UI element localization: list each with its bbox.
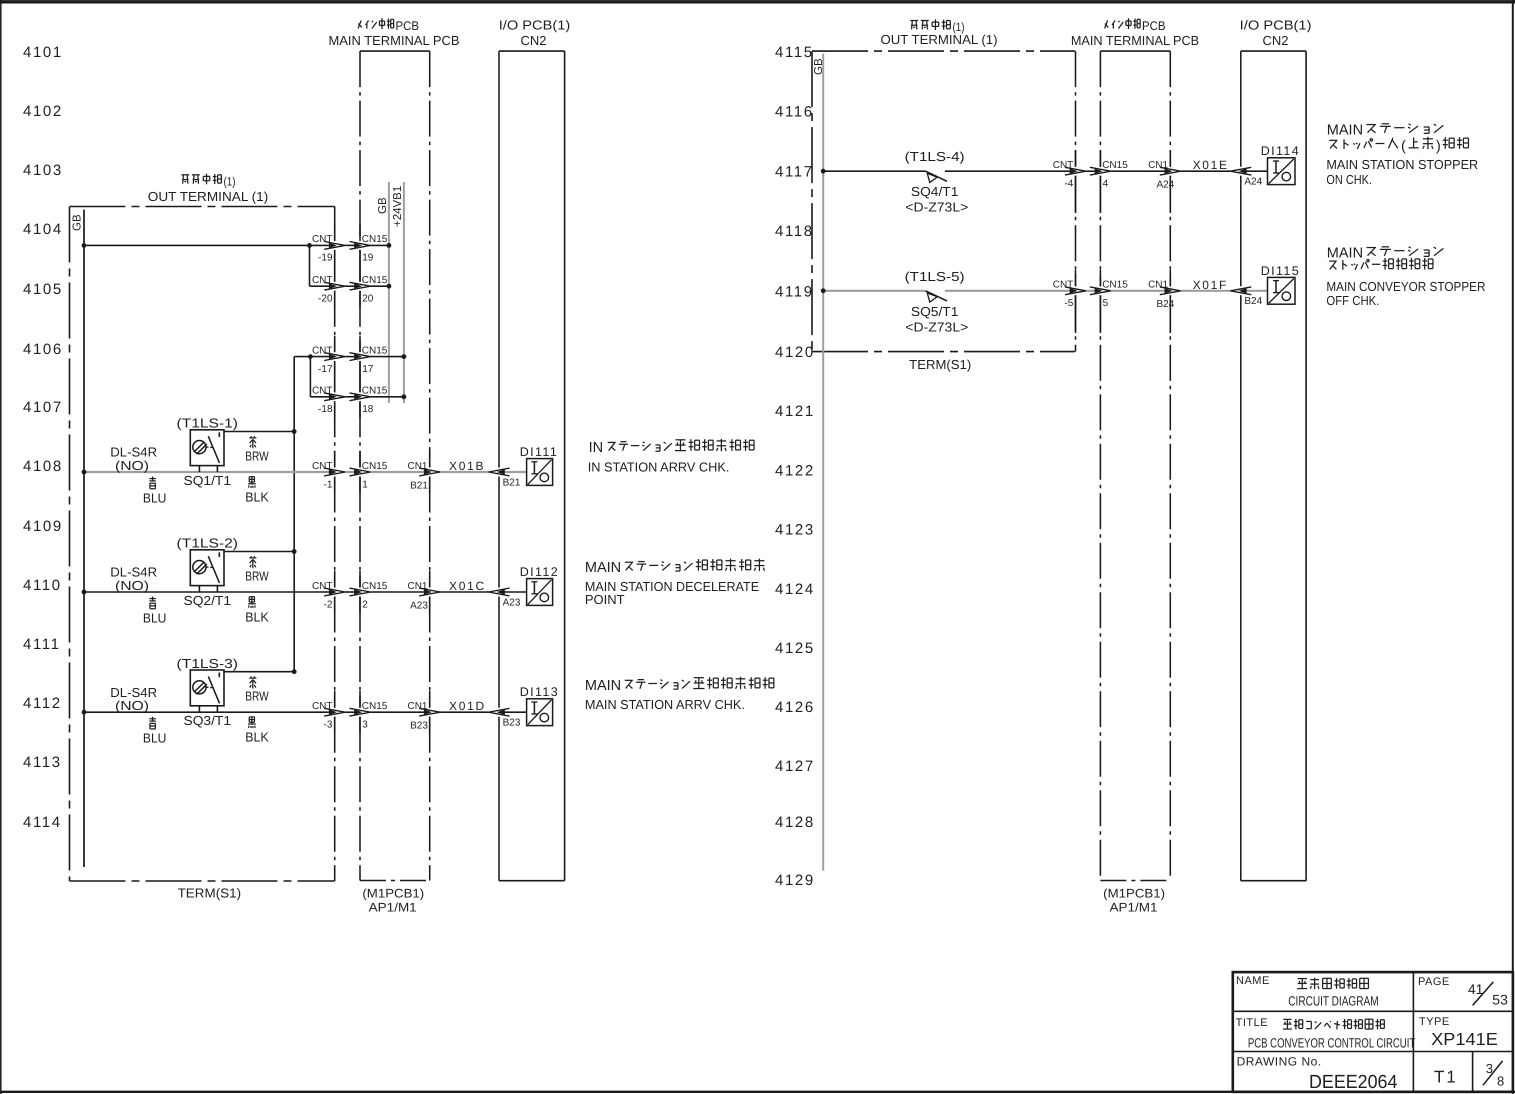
svg-text:A24: A24 [1157,180,1175,191]
svg-text:4109: 4109 [23,518,63,535]
svg-text:MAIN: MAIN [1327,245,1363,261]
svg-text:CNT: CNT [312,386,333,397]
svg-text:B24: B24 [1244,296,1262,307]
svg-text:MAIN TERMINAL PCB: MAIN TERMINAL PCB [329,33,460,48]
svg-text:4114: 4114 [23,814,62,831]
svg-text:MAIN: MAIN [1327,122,1363,138]
svg-text:SQ3/T1: SQ3/T1 [184,713,232,728]
svg-text:CN15: CN15 [1102,160,1128,171]
svg-text:DI113: DI113 [520,685,559,699]
svg-text:4103: 4103 [23,162,63,179]
svg-text:CN1: CN1 [407,701,427,712]
svg-text:ON CHK.: ON CHK. [1326,172,1372,187]
svg-text:CNT: CNT [312,581,333,592]
svg-text:(T1LS-2): (T1LS-2) [177,536,239,551]
svg-text:OUT TERMINAL (1): OUT TERMINAL (1) [881,32,998,47]
svg-text:MAIN STATION ARRV CHK.: MAIN STATION ARRV CHK. [585,697,745,712]
svg-text:CN15: CN15 [362,345,388,356]
svg-text:4104: 4104 [23,221,63,238]
svg-text:BRW: BRW [245,689,269,704]
svg-text:-2: -2 [324,599,333,610]
svg-text:DEEE2064: DEEE2064 [1309,1072,1398,1093]
svg-text:-3: -3 [324,720,333,731]
svg-text:1: 1 [362,479,368,490]
svg-text:B23: B23 [410,721,428,732]
svg-text:CNT: CNT [1053,160,1074,171]
svg-text:IN: IN [589,440,604,456]
svg-text:4110: 4110 [23,577,62,594]
svg-text:X01D: X01D [449,699,486,713]
svg-text:CN15: CN15 [362,461,388,472]
svg-text:A23: A23 [410,600,428,611]
svg-text:B23: B23 [503,718,521,729]
svg-text:I/O PCB(1): I/O PCB(1) [499,18,571,33]
svg-text:SQ1/T1: SQ1/T1 [184,473,232,488]
svg-text:TERM(S1): TERM(S1) [909,357,971,372]
svg-text:TITLE: TITLE [1236,1017,1268,1029]
svg-text:4112: 4112 [23,695,62,712]
svg-text:18: 18 [362,404,374,415]
svg-text:MAIN STATION STOPPER: MAIN STATION STOPPER [1326,157,1478,172]
svg-text:TYPE: TYPE [1419,1016,1450,1028]
svg-text:17: 17 [362,364,374,375]
svg-text:MAIN CONVEYOR STOPPER: MAIN CONVEYOR STOPPER [1326,279,1485,294]
svg-text:T1: T1 [1434,1068,1458,1087]
svg-text:8: 8 [1497,1073,1504,1088]
svg-text:4118: 4118 [775,223,814,240]
svg-text:+24VB1: +24VB1 [392,186,404,227]
svg-text:(T1LS-3): (T1LS-3) [177,656,239,671]
svg-text:B21: B21 [410,480,428,491]
svg-text:(NO): (NO) [115,698,149,713]
svg-text:X01E: X01E [1193,158,1229,172]
svg-text:4124: 4124 [775,581,815,598]
svg-text:CNT: CNT [312,234,333,245]
svg-text:OFF CHK.: OFF CHK. [1326,293,1379,308]
svg-text:PCB: PCB [396,19,420,33]
svg-text:<D-Z73L>: <D-Z73L> [905,319,968,334]
svg-text:(: ( [1401,139,1406,155]
svg-text:MAIN TERMINAL PCB: MAIN TERMINAL PCB [1071,33,1199,48]
svg-text:4108: 4108 [23,458,63,475]
svg-text:SQ2/T1: SQ2/T1 [184,593,232,608]
svg-text:4115: 4115 [775,44,814,61]
svg-text:BLK: BLK [245,730,269,745]
svg-text:4101: 4101 [23,44,63,61]
svg-text:PCB CONVEYOR CONTROL CIRCUIT: PCB CONVEYOR CONTROL CIRCUIT [1248,1036,1415,1051]
svg-text:2: 2 [362,599,368,610]
svg-text:BLU: BLU [143,490,167,505]
svg-text:MAIN: MAIN [585,560,621,576]
svg-text:(NO): (NO) [115,578,149,593]
svg-text:<D-Z73L>: <D-Z73L> [905,200,968,215]
svg-text:MAIN: MAIN [585,678,621,694]
svg-text:CN2: CN2 [1262,33,1288,48]
svg-text:-4: -4 [1064,179,1073,190]
svg-text:PCB: PCB [1142,19,1166,33]
svg-text:SQ5/T1: SQ5/T1 [911,304,959,319]
svg-text:CN1: CN1 [407,581,427,592]
svg-text:20: 20 [362,294,374,305]
svg-text:CNT: CNT [312,701,333,712]
svg-text:I/O PCB(1): I/O PCB(1) [1240,18,1312,33]
svg-text:4106: 4106 [23,341,63,358]
svg-text:(T1LS-5): (T1LS-5) [905,269,965,284]
svg-text:53: 53 [1492,992,1508,1008]
svg-text:19: 19 [362,253,374,264]
svg-text:DI115: DI115 [1261,264,1300,278]
svg-text:AP1/M1: AP1/M1 [369,901,417,915]
svg-text:DI112: DI112 [520,565,559,579]
svg-text:CN15: CN15 [362,234,388,245]
svg-text:4122: 4122 [775,463,815,480]
svg-text:BLK: BLK [245,610,269,625]
svg-text:X01B: X01B [449,459,485,473]
svg-text:CNT: CNT [1053,280,1074,291]
svg-text:PAGE: PAGE [1418,976,1450,988]
svg-text:): ) [1436,139,1441,155]
svg-text:(M1PCB1): (M1PCB1) [362,887,424,901]
svg-text:(T1LS-1): (T1LS-1) [177,416,239,431]
svg-text:4102: 4102 [23,103,63,120]
svg-text:B21: B21 [503,477,521,488]
svg-text:GB: GB [72,214,84,231]
svg-text:4123: 4123 [775,522,815,539]
svg-text:A23: A23 [503,597,521,608]
svg-text:CN15: CN15 [1102,280,1128,291]
svg-text:4119: 4119 [775,284,814,301]
svg-text:4117: 4117 [775,164,814,181]
svg-text:5: 5 [1103,298,1109,309]
svg-text:DI114: DI114 [1261,144,1300,158]
svg-text:CNT: CNT [312,461,333,472]
svg-text:4: 4 [1103,179,1109,190]
svg-text:GB: GB [377,197,389,214]
svg-text:CN1: CN1 [1148,160,1168,171]
svg-text:-18: -18 [318,404,333,415]
svg-text:CN15: CN15 [362,386,388,397]
svg-text:4120: 4120 [775,344,815,361]
svg-text:BRW: BRW [245,569,269,584]
svg-text:A24: A24 [1244,177,1262,188]
svg-text:CN1: CN1 [407,461,427,472]
svg-text:-20: -20 [318,294,333,305]
svg-text:4121: 4121 [775,403,815,420]
svg-text:BLU: BLU [143,610,167,625]
svg-text:-17: -17 [318,364,333,375]
svg-text:CNT: CNT [312,345,333,356]
svg-text:4127: 4127 [775,758,815,775]
svg-text:CNT: CNT [312,275,333,286]
svg-text:OUT TERMINAL (1): OUT TERMINAL (1) [148,189,269,204]
svg-text:BLK: BLK [245,490,269,505]
svg-text:AP1/M1: AP1/M1 [1110,901,1158,915]
svg-text:-5: -5 [1064,298,1073,309]
svg-text:4111: 4111 [23,636,61,653]
svg-text:IN STATION ARRV CHK.: IN STATION ARRV CHK. [588,460,730,475]
svg-text:4116: 4116 [775,104,814,121]
svg-text:(M1PCB1): (M1PCB1) [1103,887,1165,901]
svg-text:B24: B24 [1157,299,1175,310]
svg-text:CN15: CN15 [362,701,388,712]
svg-text:4128: 4128 [775,814,815,831]
svg-text:TERM(S1): TERM(S1) [178,886,242,901]
svg-text:CN1: CN1 [1148,280,1168,291]
svg-text:BRW: BRW [245,449,269,464]
svg-text:4126: 4126 [775,699,815,716]
svg-text:CIRCUIT DIAGRAM: CIRCUIT DIAGRAM [1288,993,1378,1008]
svg-text:(NO): (NO) [115,458,149,473]
svg-text:CN15: CN15 [362,581,388,592]
svg-text:(1): (1) [224,174,236,188]
svg-text:DRAWING No.: DRAWING No. [1237,1055,1322,1069]
svg-text:4107: 4107 [23,399,63,416]
svg-text:NAME: NAME [1236,975,1270,987]
svg-text:4113: 4113 [23,754,62,771]
svg-text:4125: 4125 [775,640,815,657]
svg-text:BLU: BLU [143,731,167,746]
svg-text:X01C: X01C [449,579,486,593]
svg-text:SQ4/T1: SQ4/T1 [911,184,959,199]
svg-text:XP141E: XP141E [1431,1029,1498,1049]
svg-text:4129: 4129 [775,872,815,889]
svg-text:DI111: DI111 [520,445,559,459]
svg-text:CN2: CN2 [520,33,546,48]
svg-text:CN15: CN15 [362,275,388,286]
svg-text:(T1LS-4): (T1LS-4) [905,149,965,164]
svg-text:-1: -1 [324,479,333,490]
svg-text:4105: 4105 [23,281,63,298]
svg-text:-19: -19 [318,253,333,264]
svg-text:3: 3 [362,720,368,731]
svg-text:POINT: POINT [585,592,625,607]
svg-text:X01F: X01F [1193,278,1228,292]
